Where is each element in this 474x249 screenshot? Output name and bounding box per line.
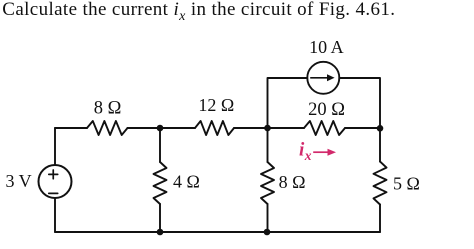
current source 10A circle [307, 62, 339, 94]
bottom junction dot under 4-ohm [157, 229, 164, 236]
wire from 5-ohm resistor to bottom wire [379, 205, 381, 233]
wire from 20-ohm resistor to node C [345, 127, 380, 129]
wire from top wire down to 3V source [54, 128, 56, 165]
wire between 8-ohm and 12-ohm resistors through node A [128, 127, 196, 129]
current label i_x (magenta) [299, 139, 312, 163]
resistor 20 ohm (top horizontal) [304, 121, 345, 135]
wire from node B down to 8-ohm vertical resistor [267, 128, 269, 162]
voltage source 3V circle [39, 165, 72, 198]
bottom wire [55, 231, 380, 233]
node B junction dot (top, 8-ohm/10A loop) [264, 125, 271, 132]
arrow inside 10A current source [310, 74, 334, 81]
node C junction dot (top right, 5-ohm/10A loop) [377, 125, 384, 132]
wire from 4-ohm resistor to bottom wire [159, 204, 161, 232]
wire from node B up to 10A current source loop [268, 78, 308, 128]
resistor 8 ohm (top horizontal) [87, 121, 128, 135]
svg-text:5 Ω: 5 Ω [393, 174, 420, 194]
wire between 12-ohm and 20-ohm resistors through node B [234, 127, 304, 129]
resistor 5 ohm (vertical) [374, 162, 387, 205]
resistor 12 ohm (top horizontal) [195, 121, 234, 135]
current direction arrow i_x (magenta) [313, 149, 336, 156]
svg-text:12 Ω: 12 Ω [198, 95, 234, 115]
minus sign inside 3V source [49, 192, 58, 194]
node A junction dot (top, 4-ohm) [157, 125, 164, 132]
svg-text:x: x [304, 148, 312, 163]
svg-text:4 Ω: 4 Ω [173, 171, 200, 191]
svg-text:8 Ω: 8 Ω [94, 98, 122, 118]
resistor 8 ohm (vertical) [261, 162, 274, 204]
wire from 8-ohm vertical resistor to bottom wire [267, 204, 269, 232]
svg-text:10 A: 10 A [309, 37, 344, 57]
resistor 4 ohm (vertical) [154, 162, 167, 204]
svg-text:20 Ω: 20 Ω [308, 100, 345, 120]
wire from node C down to 5-ohm resistor [379, 128, 381, 162]
plus sign inside 3V source [49, 170, 58, 179]
wire top-left from 3V branch to 8-ohm resistor [55, 127, 87, 129]
bottom junction dot under 8-ohm [264, 229, 271, 236]
svg-text:8 Ω: 8 Ω [279, 172, 306, 192]
wire from 3V source down to bottom wire [54, 198, 56, 232]
svg-text:3 V: 3 V [6, 171, 32, 191]
wire from 10A current source to right side of loop down to node C [339, 78, 380, 128]
title text [2, 0, 395, 19]
wire from node A down to 4-ohm resistor [159, 128, 161, 162]
